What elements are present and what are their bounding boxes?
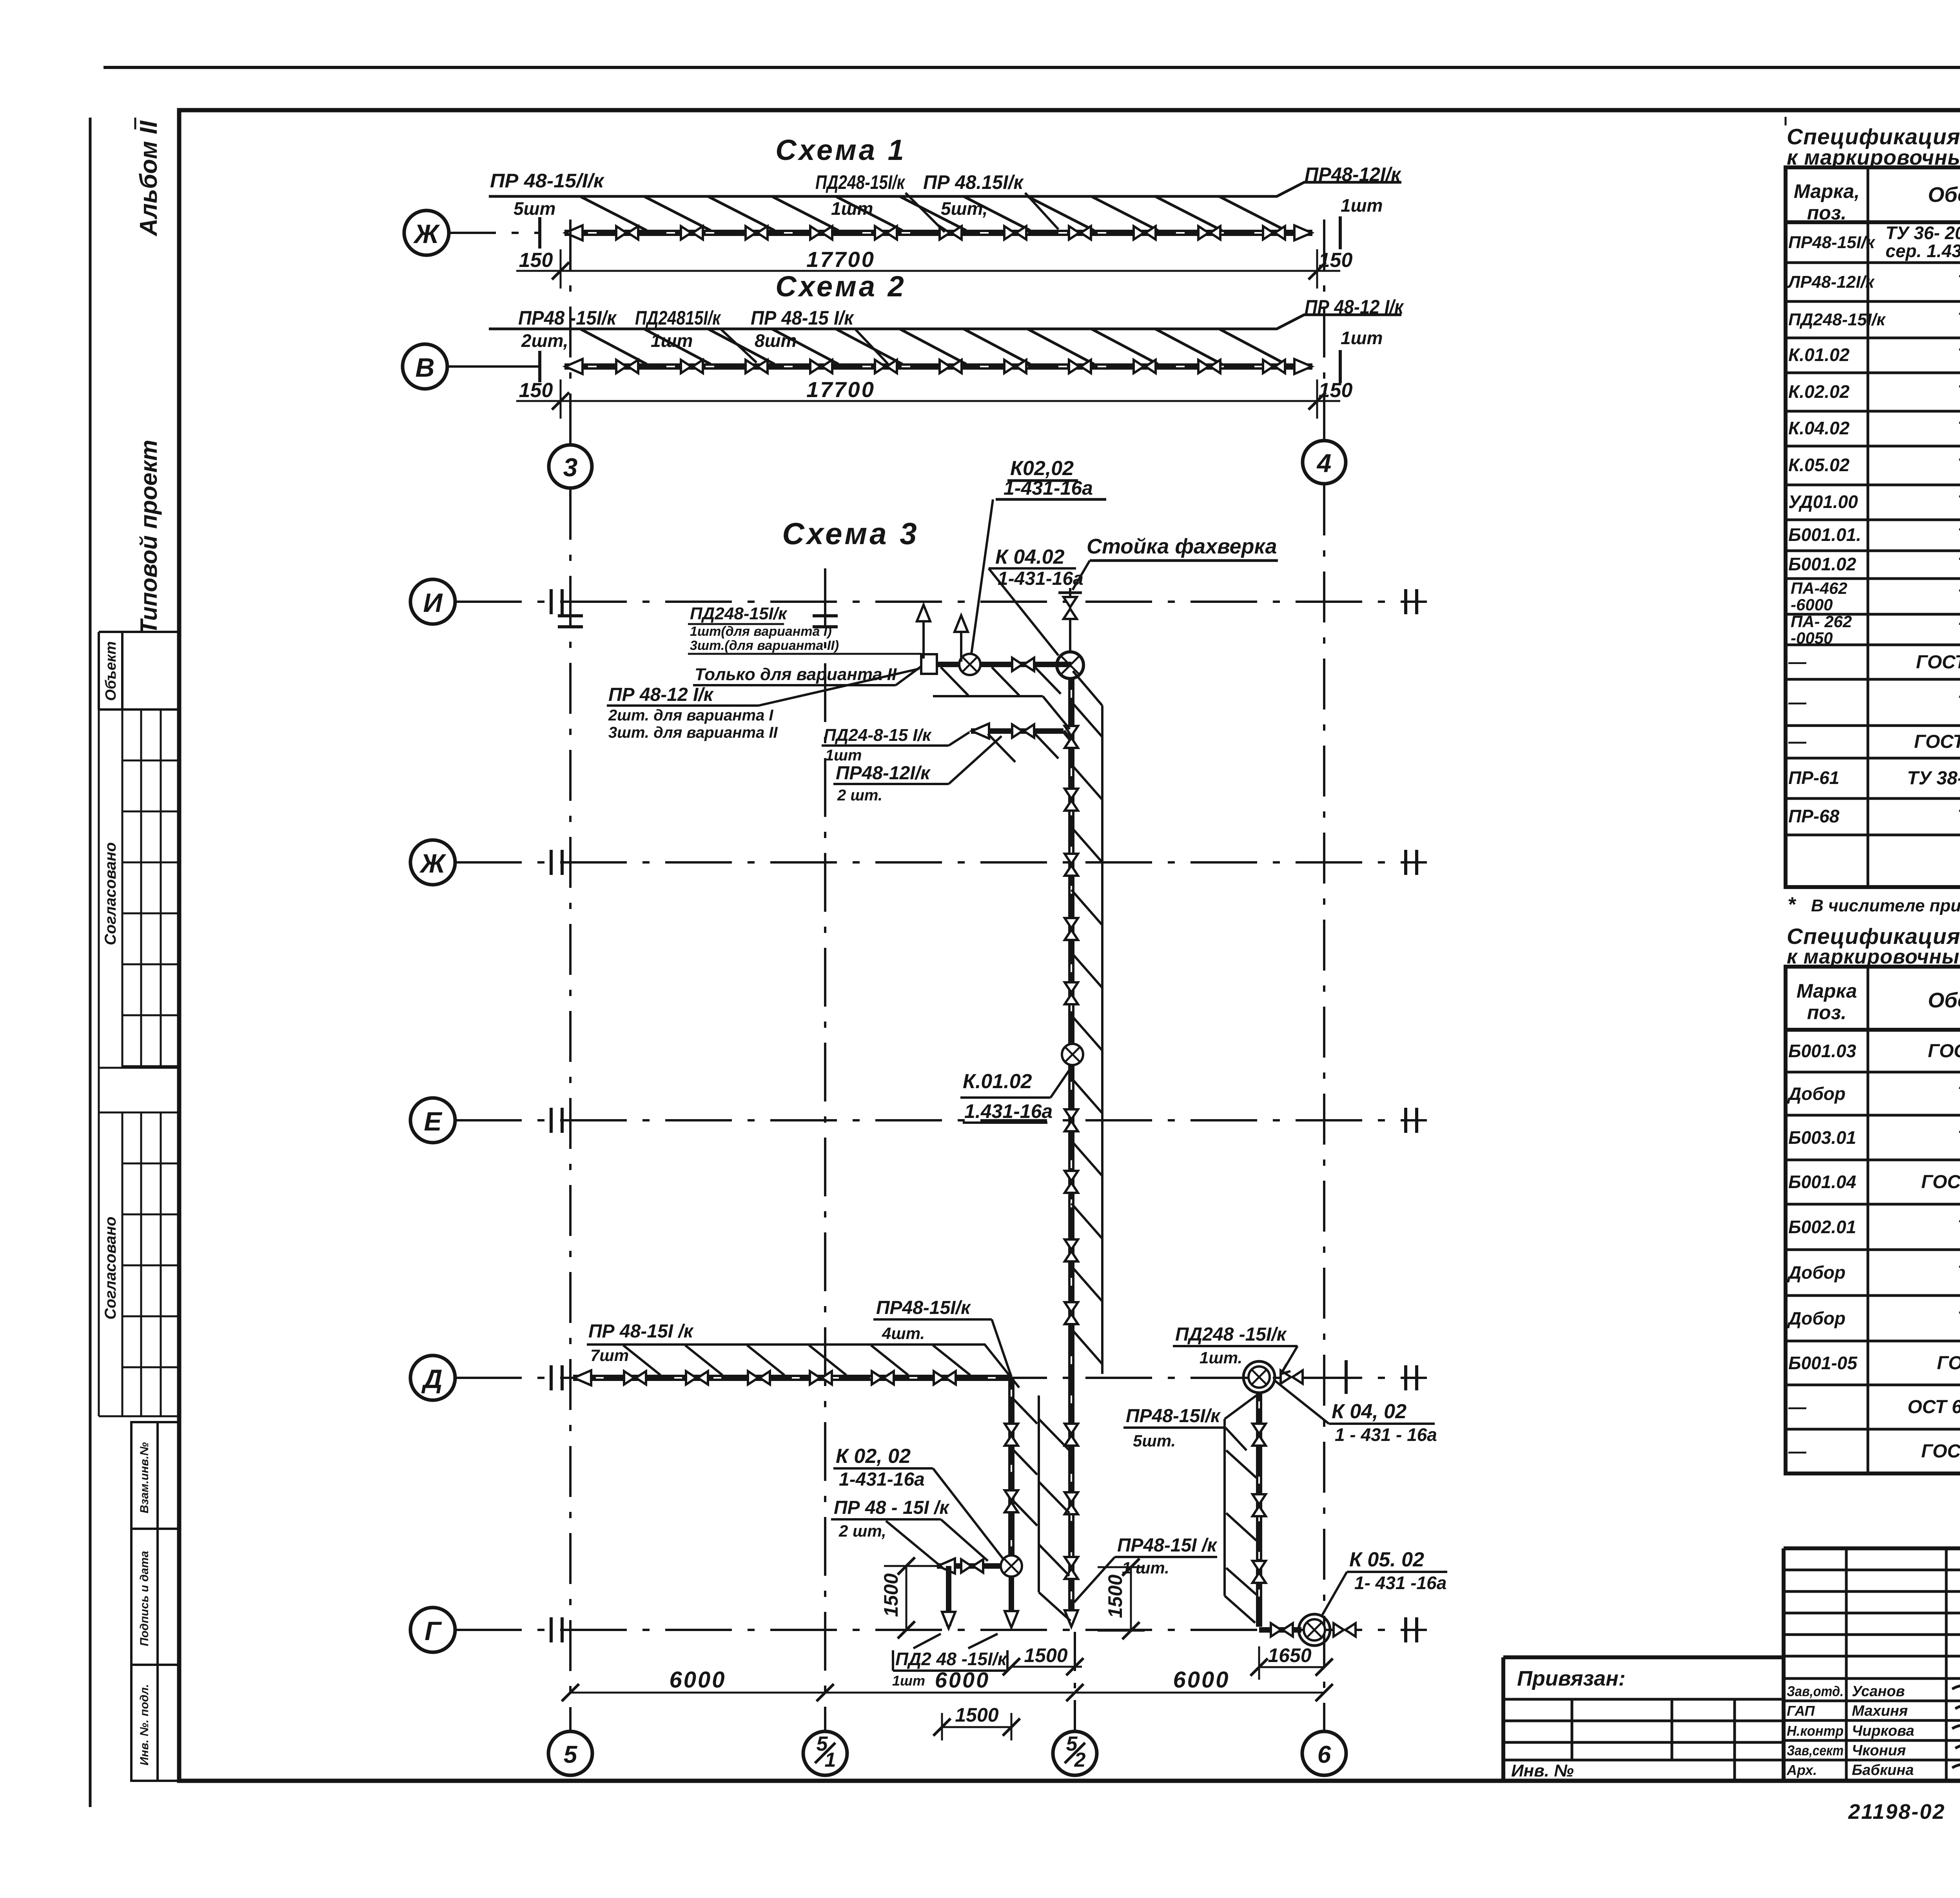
axis circle Ж <box>410 840 455 885</box>
sheet top edge line <box>103 66 1960 69</box>
svg-text:ПР48-12I/к: ПР48-12I/к <box>836 763 931 784</box>
svg-text:2 шт,: 2 шт, <box>838 1522 886 1540</box>
svg-text:—: — <box>1788 731 1807 751</box>
svg-text:—: — <box>1788 651 1807 672</box>
vertical dim 1500 right <box>1130 1567 1132 1631</box>
wall corner down at 2580 <box>1008 1378 1014 1555</box>
svg-text:150: 150 <box>519 249 553 272</box>
svg-text:ЛР48-12I/к: ЛР48-12I/к <box>1787 272 1875 292</box>
svg-text:Схема 1: Схема 1 <box>775 134 906 166</box>
shelf line <box>489 315 1401 329</box>
joint circle on И wall <box>959 654 980 675</box>
svg-text:поз.: поз. <box>1807 1002 1847 1023</box>
privyazan box <box>1503 1657 1784 1781</box>
svg-text:3шт.(для варианта II): 3шт.(для варианта II) <box>690 638 839 653</box>
svg-text:Ж: Ж <box>419 849 446 878</box>
svg-text:К 02, 02: К 02, 02 <box>836 1445 911 1468</box>
fachwerk axis line above И <box>1069 588 1071 652</box>
top joint circle К04.02 <box>1249 1366 1270 1388</box>
svg-text:ГОСТ 9590-72: ГОСТ 9590-72 <box>1921 1172 1960 1192</box>
svg-text:—: — <box>1788 1441 1807 1461</box>
axis И horizontal <box>455 601 1427 603</box>
svg-text:1-431-16а: 1-431-16а <box>839 1469 925 1490</box>
anchor marks axis Е <box>551 1108 562 1133</box>
panel joints <box>616 360 638 373</box>
svg-text:Усанов: Усанов <box>1852 1683 1905 1700</box>
signature table <box>1784 1548 1960 1781</box>
svg-text:1-431-16а: 1-431-16а <box>1004 477 1093 499</box>
svg-text:5шт.: 5шт. <box>1133 1432 1176 1450</box>
svg-text:1 - 431 - 16а: 1 - 431 - 16а <box>1335 1424 1437 1445</box>
joint circle К02.02 room <box>1001 1555 1022 1577</box>
anchor marks axis Г <box>551 1617 562 1642</box>
svg-text:ГОСТ 8486-66: ГОСТ 8486-66 <box>1921 1441 1960 1462</box>
Д wall hatch <box>623 1345 970 1375</box>
svg-text:ПР-61: ПР-61 <box>1788 768 1839 788</box>
leader К.01.02 <box>1051 1065 1073 1098</box>
svg-text:ПД248 -15I/к: ПД248 -15I/к <box>1175 1324 1287 1345</box>
room top wall <box>937 1563 1001 1569</box>
svg-text:Б001.03: Б001.03 <box>1788 1041 1857 1061</box>
svg-text:Е: Е <box>424 1107 443 1136</box>
axis circle 3 <box>549 445 592 488</box>
svg-text:ПД24-8-15 I/к: ПД24-8-15 I/к <box>824 726 932 745</box>
svg-text:ПД248-15I/к: ПД248-15I/к <box>690 604 788 623</box>
Д wall shelf line <box>587 1345 1019 1388</box>
svg-text:Н.контр: Н.контр <box>1787 1723 1844 1739</box>
svg-text:ПД2 48 -15I/к: ПД2 48 -15I/к <box>895 1649 1008 1669</box>
svg-text:Объект: Объект <box>103 641 119 701</box>
svg-text:И: И <box>423 588 443 618</box>
hatch band <box>580 196 1286 230</box>
wall segment 2 below И <box>971 728 1063 734</box>
axis circle 5/1 <box>803 1731 847 1775</box>
long wall panel joints <box>1065 726 1078 748</box>
svg-text:Добор: Добор <box>1787 1262 1846 1283</box>
svg-text:4: 4 <box>1316 448 1332 477</box>
axis line 3-5 vertical <box>569 220 572 444</box>
svg-text:К.04.02: К.04.02 <box>1788 418 1850 438</box>
svg-text:То же: То же <box>1958 1262 1960 1283</box>
svg-text:ГОСТ 111-78: ГОСТ 111-78 <box>1928 1041 1960 1062</box>
svg-text:Подпись и дата: Подпись и дата <box>138 1551 151 1646</box>
inv podl box <box>131 1665 179 1781</box>
svg-text:17700: 17700 <box>806 377 875 402</box>
svg-text:1500: 1500 <box>880 1573 902 1617</box>
svg-text:То же: То же <box>1958 806 1960 827</box>
svg-text:ПР48-12I/к: ПР48-12I/к <box>1305 163 1402 185</box>
svg-text:поз.: поз. <box>1807 202 1847 224</box>
svg-text:ГАП: ГАП <box>1787 1703 1815 1719</box>
svg-text:1.431-16а: 1.431-16а <box>964 1100 1053 1122</box>
svg-text:1 шт.: 1 шт. <box>1122 1559 1169 1577</box>
svg-text:Марка,: Марка, <box>1794 180 1860 202</box>
svg-text:Махиня: Махиня <box>1852 1703 1908 1719</box>
svg-text:6000: 6000 <box>935 1668 990 1692</box>
svg-text:ПР 48-12 I/к: ПР 48-12 I/к <box>1305 296 1404 318</box>
svg-text:ПР48-15I/к: ПР48-15I/к <box>1788 233 1876 252</box>
svg-text:ПА-462: ПА-462 <box>1791 579 1847 597</box>
axis circle В (schema 2) <box>403 344 447 389</box>
room left wall <box>946 1566 951 1626</box>
spacer box <box>99 1068 179 1112</box>
svg-text:ПР 48-12 I/к: ПР 48-12 I/к <box>608 684 714 705</box>
axis circle Д <box>410 1355 455 1400</box>
svg-text:ПР48-15I/к: ПР48-15I/к <box>1126 1406 1221 1426</box>
axis circle И <box>410 579 455 624</box>
svg-text:ПР 48-15 I/к: ПР 48-15 I/к <box>751 307 854 329</box>
joint bowtie on И axis <box>1063 597 1077 619</box>
svg-text:Согласовано: Согласовано <box>102 842 119 945</box>
svg-text:1500: 1500 <box>1104 1575 1126 1618</box>
svg-text:4шт.: 4шт. <box>882 1324 925 1343</box>
svg-text:ПР48 -15I/к: ПР48 -15I/к <box>518 307 617 329</box>
drawing frame border <box>179 110 1960 1781</box>
svg-text:ПД248-15I/к: ПД248-15I/к <box>1788 310 1886 329</box>
leader К02.02 room <box>933 1468 1004 1559</box>
axis Д horizontal <box>455 1377 1427 1379</box>
svg-text:1шт: 1шт <box>1341 195 1383 216</box>
axis Ж horizontal <box>455 861 1427 864</box>
svg-text:То же: То же <box>1958 272 1960 292</box>
svg-text:К.02.02: К.02.02 <box>1788 381 1850 402</box>
label diagonal leaders schema 1 <box>906 182 1304 232</box>
long partition wall (И to Г) <box>1068 679 1074 1623</box>
svg-text:Добор: Добор <box>1787 1308 1846 1328</box>
П hatch band <box>1223 1419 1226 1596</box>
svg-text:7шт: 7шт <box>590 1346 629 1365</box>
svg-text:1-431-16а: 1-431-16а <box>998 568 1083 589</box>
svg-text:Д: Д <box>421 1364 442 1394</box>
svg-text:Привязан:: Привязан: <box>1517 1667 1626 1690</box>
svg-text:То же: То же <box>1958 586 1960 607</box>
hatch line between room and long wall <box>1038 1395 1040 1592</box>
leader К 04.02 <box>989 568 1058 655</box>
axis circle Ж (schema 1) <box>404 210 449 255</box>
svg-text:1500: 1500 <box>955 1704 998 1726</box>
svg-text:Б001.04: Б001.04 <box>1788 1172 1856 1192</box>
svg-text:1: 1 <box>825 1749 836 1771</box>
shelf line <box>489 182 1401 196</box>
axis circle 5/2 <box>1053 1731 1097 1775</box>
axis circle 4 <box>1303 441 1346 484</box>
partition wall <box>564 230 1312 236</box>
wall end ticks <box>538 217 541 249</box>
axis circle 6 <box>1302 1731 1346 1775</box>
svg-text:сер. 1.431- 16а: сер. 1.431- 16а <box>1886 241 1960 261</box>
svg-text:1шт(для варианта I): 1шт(для варианта I) <box>690 624 832 639</box>
hatch band <box>580 329 1286 364</box>
svg-text:21198-02: 21198-02 <box>1848 1800 1945 1824</box>
axis circle Г <box>410 1608 455 1652</box>
svg-text:1шт.: 1шт. <box>1200 1348 1242 1367</box>
svg-text:То же: То же <box>1958 309 1960 330</box>
axis line 4-6 vertical <box>1323 220 1325 440</box>
svg-text:ПД24815I/к: ПД24815I/к <box>635 307 721 329</box>
svg-text:2шт. для варианта I: 2шт. для варианта I <box>608 707 773 724</box>
small end box <box>921 654 937 674</box>
svg-text:Б003.01: Б003.01 <box>1788 1127 1856 1148</box>
svg-text:ГОСТ 5-72: ГОСТ 5-72 <box>1937 1353 1960 1374</box>
svg-text:УД01.00: УД01.00 <box>1788 492 1858 512</box>
svg-text:6: 6 <box>1318 1741 1331 1768</box>
svg-text:Чиркова: Чиркова <box>1852 1723 1914 1739</box>
svg-text:8шт: 8шт <box>755 330 797 351</box>
panel joints <box>616 226 638 240</box>
fachwerk stand circle <box>1057 652 1083 679</box>
svg-text:К 04, 02: К 04, 02 <box>1332 1400 1406 1423</box>
svg-text:ПА- 262: ПА- 262 <box>1791 612 1852 631</box>
svg-text:-6000: -6000 <box>1791 595 1833 614</box>
svg-text:1шт: 1шт <box>651 330 693 351</box>
svg-text:В: В <box>415 353 434 383</box>
joint circle К.01.02 <box>1062 1044 1083 1065</box>
svg-text:Схема 3: Схема 3 <box>782 516 919 551</box>
svg-text:Б001.01.: Б001.01. <box>1788 524 1861 545</box>
svg-text:ПР 48-15/I/к: ПР 48-15/I/к <box>490 170 605 192</box>
up arrows to axis И <box>922 615 925 659</box>
svg-text:Б002.01: Б002.01 <box>1788 1217 1856 1237</box>
axis line 5/2 below Г <box>1074 1632 1076 1731</box>
svg-text:То же: То же <box>1958 1308 1960 1329</box>
table 2 grid <box>1786 967 1960 1473</box>
axis circle 5 <box>548 1731 592 1775</box>
svg-text:К 05. 02: К 05. 02 <box>1349 1548 1424 1571</box>
svg-text:5шт: 5шт <box>514 198 555 219</box>
svg-text:К.05.02: К.05.02 <box>1788 455 1850 475</box>
dim 1500 at 5/2 <box>1011 1666 1082 1668</box>
svg-text:ПР 48-15I /к: ПР 48-15I /к <box>588 1321 694 1342</box>
vertical dim 1500 left <box>906 1566 907 1630</box>
svg-text:ПР-68: ПР-68 <box>1788 806 1840 826</box>
svg-text:1шт: 1шт <box>1341 328 1383 348</box>
svg-text:Схема 2: Схема 2 <box>775 270 906 303</box>
svg-text:Зав,отд.: Зав,отд. <box>1787 1683 1844 1699</box>
approval block 1 <box>99 709 179 1068</box>
svg-text:1шт: 1шт <box>831 198 873 219</box>
bottom joint circle К05.02 <box>1304 1619 1325 1640</box>
svg-text:Г: Г <box>425 1616 442 1646</box>
bowtie after circle on Г <box>1334 1623 1356 1637</box>
svg-text:—: — <box>1788 1397 1807 1417</box>
svg-text:Зав,сект: Зав,сект <box>1787 1742 1844 1758</box>
long wall hatch right band <box>1071 702 1102 1364</box>
svg-text:ГОСТ 11371- 78: ГОСТ 11371- 78 <box>1914 731 1960 752</box>
svg-text:5шт,: 5шт, <box>941 198 988 219</box>
svg-text:Обозначение: Обозначение <box>1928 183 1960 207</box>
svg-text:6000: 6000 <box>669 1667 726 1693</box>
svg-text:Типовой проект: Типовой проект <box>136 440 162 634</box>
svg-text:Взам.инв.№: Взам.инв.№ <box>138 1442 151 1513</box>
svg-text:То же: То же <box>1958 345 1960 366</box>
anchor marks axis Д <box>551 1365 562 1390</box>
svg-text:Согласовано: Согласовано <box>102 1217 119 1320</box>
label diagonal leaders schema 2 <box>720 315 1304 364</box>
partition wall <box>564 363 1312 370</box>
approval block 2 <box>99 1112 179 1416</box>
svg-text:1шт: 1шт <box>892 1673 925 1689</box>
bowtie right of top circle on Д <box>1281 1370 1303 1384</box>
svg-text:3: 3 <box>563 453 578 482</box>
svg-text:То же: То же <box>1958 418 1960 439</box>
svg-text:К.01.02: К.01.02 <box>963 1070 1032 1093</box>
svg-text:То же: То же <box>1958 1083 1960 1104</box>
hatch boundary line right <box>1101 706 1103 1374</box>
hatch under segment 2 <box>988 734 1058 762</box>
object box <box>99 632 179 709</box>
leaders <box>886 1519 988 1568</box>
svg-text:Марка: Марка <box>1797 980 1857 1002</box>
svg-text:ПР48-15I/к: ПР48-15I/к <box>876 1297 971 1318</box>
svg-text:Стойка фахверка: Стойка фахверка <box>1087 535 1277 558</box>
svg-text:То же: То же <box>1958 382 1960 403</box>
svg-text:Инв. №. подл.: Инв. №. подл. <box>138 1684 151 1766</box>
svg-text:То же: То же <box>1958 1127 1960 1148</box>
podpis data box <box>131 1529 179 1665</box>
svg-text:К02,02: К02,02 <box>1010 457 1074 480</box>
svg-text:6000: 6000 <box>1173 1667 1230 1693</box>
dim 1650 <box>1259 1666 1324 1668</box>
axis Г horizontal <box>455 1629 1427 1631</box>
svg-text:То же: То же <box>1958 455 1960 476</box>
anchor marks axis Ж <box>551 850 562 875</box>
svg-text:1500: 1500 <box>1024 1644 1067 1666</box>
svg-text:То же: То же <box>1958 554 1960 575</box>
dimension line <box>516 400 1340 402</box>
svg-text:В числителе приведено количест: В числителе приведено количество для I в… <box>1811 896 1960 915</box>
anchor on 5/1 <box>813 616 838 627</box>
svg-text:Арх.: Арх. <box>1786 1762 1817 1778</box>
svg-text:ПР 48 - 15I /к: ПР 48 - 15I /к <box>834 1497 950 1518</box>
hatch band under И wall <box>941 667 1061 695</box>
leader К02.02 <box>971 499 993 654</box>
axis Е horizontal <box>455 1119 1427 1121</box>
svg-text:ОСТ 6 -05-407-75: ОСТ 6 -05-407-75 <box>1907 1397 1960 1417</box>
table 1 grid <box>1786 167 1960 887</box>
svg-text:То же: То же <box>1958 619 1960 640</box>
svg-text:Б001.02: Б001.02 <box>1788 554 1857 574</box>
vzam inv box <box>131 1422 179 1529</box>
bowtie on И wall <box>1012 658 1034 671</box>
П vertical wall <box>1256 1393 1262 1627</box>
anchor on 5 <box>558 616 583 627</box>
axis circle Е <box>410 1098 455 1143</box>
svg-text:Чкония: Чкония <box>1852 1742 1906 1759</box>
svg-text:То же: То же <box>1958 525 1960 546</box>
svg-text:Добор: Добор <box>1787 1083 1846 1104</box>
svg-text:Ж: Ж <box>413 219 440 249</box>
svg-text:-0050: -0050 <box>1791 629 1833 647</box>
svg-text:3шт. для варианта II: 3шт. для варианта II <box>608 724 778 741</box>
svg-text:1шт: 1шт <box>825 747 862 764</box>
svg-text:—: — <box>1788 692 1807 712</box>
wall below circle <box>1009 1577 1014 1623</box>
svg-text:Обозначение: Обозначение <box>1928 989 1960 1012</box>
svg-text:ТУ 38-005-204-71: ТУ 38-005-204-71 <box>1907 768 1960 789</box>
svg-text:5: 5 <box>564 1741 578 1768</box>
svg-text:2: 2 <box>1074 1749 1086 1771</box>
svg-text:ГОСТ 17473-72: ГОСТ 17473-72 <box>1916 652 1960 673</box>
П bottom wall <box>1259 1627 1301 1633</box>
anchor marks axis И <box>551 589 562 614</box>
svg-text:2шт,: 2шт, <box>521 330 568 351</box>
svg-text:То же: То же <box>1958 492 1960 513</box>
svg-text:*: * <box>1788 893 1797 916</box>
svg-text:Б001-05: Б001-05 <box>1788 1353 1858 1373</box>
svg-text:К 04.02: К 04.02 <box>995 546 1065 568</box>
dimension line <box>516 270 1340 272</box>
dim 1500 bottom <box>942 1726 1011 1728</box>
svg-text:17700: 17700 <box>806 247 875 272</box>
svg-text:ПР 48.15I/к: ПР 48.15I/к <box>923 171 1024 193</box>
svg-text:1- 431 -16а: 1- 431 -16а <box>1354 1573 1446 1593</box>
axis line 5/1 vertical <box>824 568 826 1731</box>
wall segment on axis И <box>924 662 1071 667</box>
svg-text:ТУ 36- 2024 - 77: ТУ 36- 2024 - 77 <box>1886 223 1960 243</box>
svg-text:150: 150 <box>519 379 553 402</box>
svg-text:К.01.02: К.01.02 <box>1788 345 1850 365</box>
svg-text:Альбом II: Альбом II <box>135 120 162 237</box>
bottom dimension line 6000s <box>570 1692 1324 1694</box>
svg-text:2 шт.: 2 шт. <box>837 787 882 804</box>
sheet left edge line <box>89 118 92 1807</box>
svg-text:То же: То же <box>1958 1217 1960 1238</box>
svg-text:ПД248-15I/к: ПД248-15I/к <box>815 171 906 193</box>
svg-text:Бабкина: Бабкина <box>1852 1762 1914 1778</box>
svg-text:Инв. №: Инв. № <box>1511 1761 1574 1780</box>
Д axis wall <box>573 1375 1011 1381</box>
svg-text:1650: 1650 <box>1268 1644 1311 1666</box>
svg-text:ПР48-15I /к: ПР48-15I /к <box>1117 1535 1218 1556</box>
wall end ticks <box>538 351 541 382</box>
svg-text:То же: То же <box>1958 692 1960 713</box>
